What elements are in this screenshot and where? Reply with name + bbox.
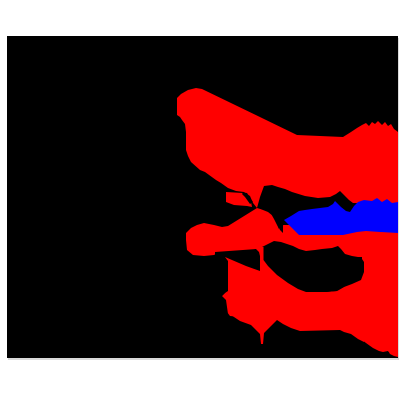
photo black background <box>7 36 398 358</box>
bottom band <box>222 268 364 344</box>
red thread <box>261 247 264 273</box>
black interior hole <box>262 241 364 292</box>
black wedge under swoosh <box>258 186 352 233</box>
black notch in bottom-right red <box>381 352 390 358</box>
blue band <box>284 198 398 235</box>
red blanket lower-middle (diagonal band area) <box>216 244 318 322</box>
thin red strip under swoosh tail <box>226 192 252 207</box>
band below blue <box>262 225 398 257</box>
right vertical bar <box>362 230 398 357</box>
black notch slit <box>242 193 253 205</box>
big top red swoosh <box>177 88 398 208</box>
photo shadow <box>8 38 399 360</box>
black pocket left of thread <box>215 249 260 297</box>
black sw wedge left of bottom tip <box>216 290 228 314</box>
central mass with left blob <box>186 208 284 256</box>
